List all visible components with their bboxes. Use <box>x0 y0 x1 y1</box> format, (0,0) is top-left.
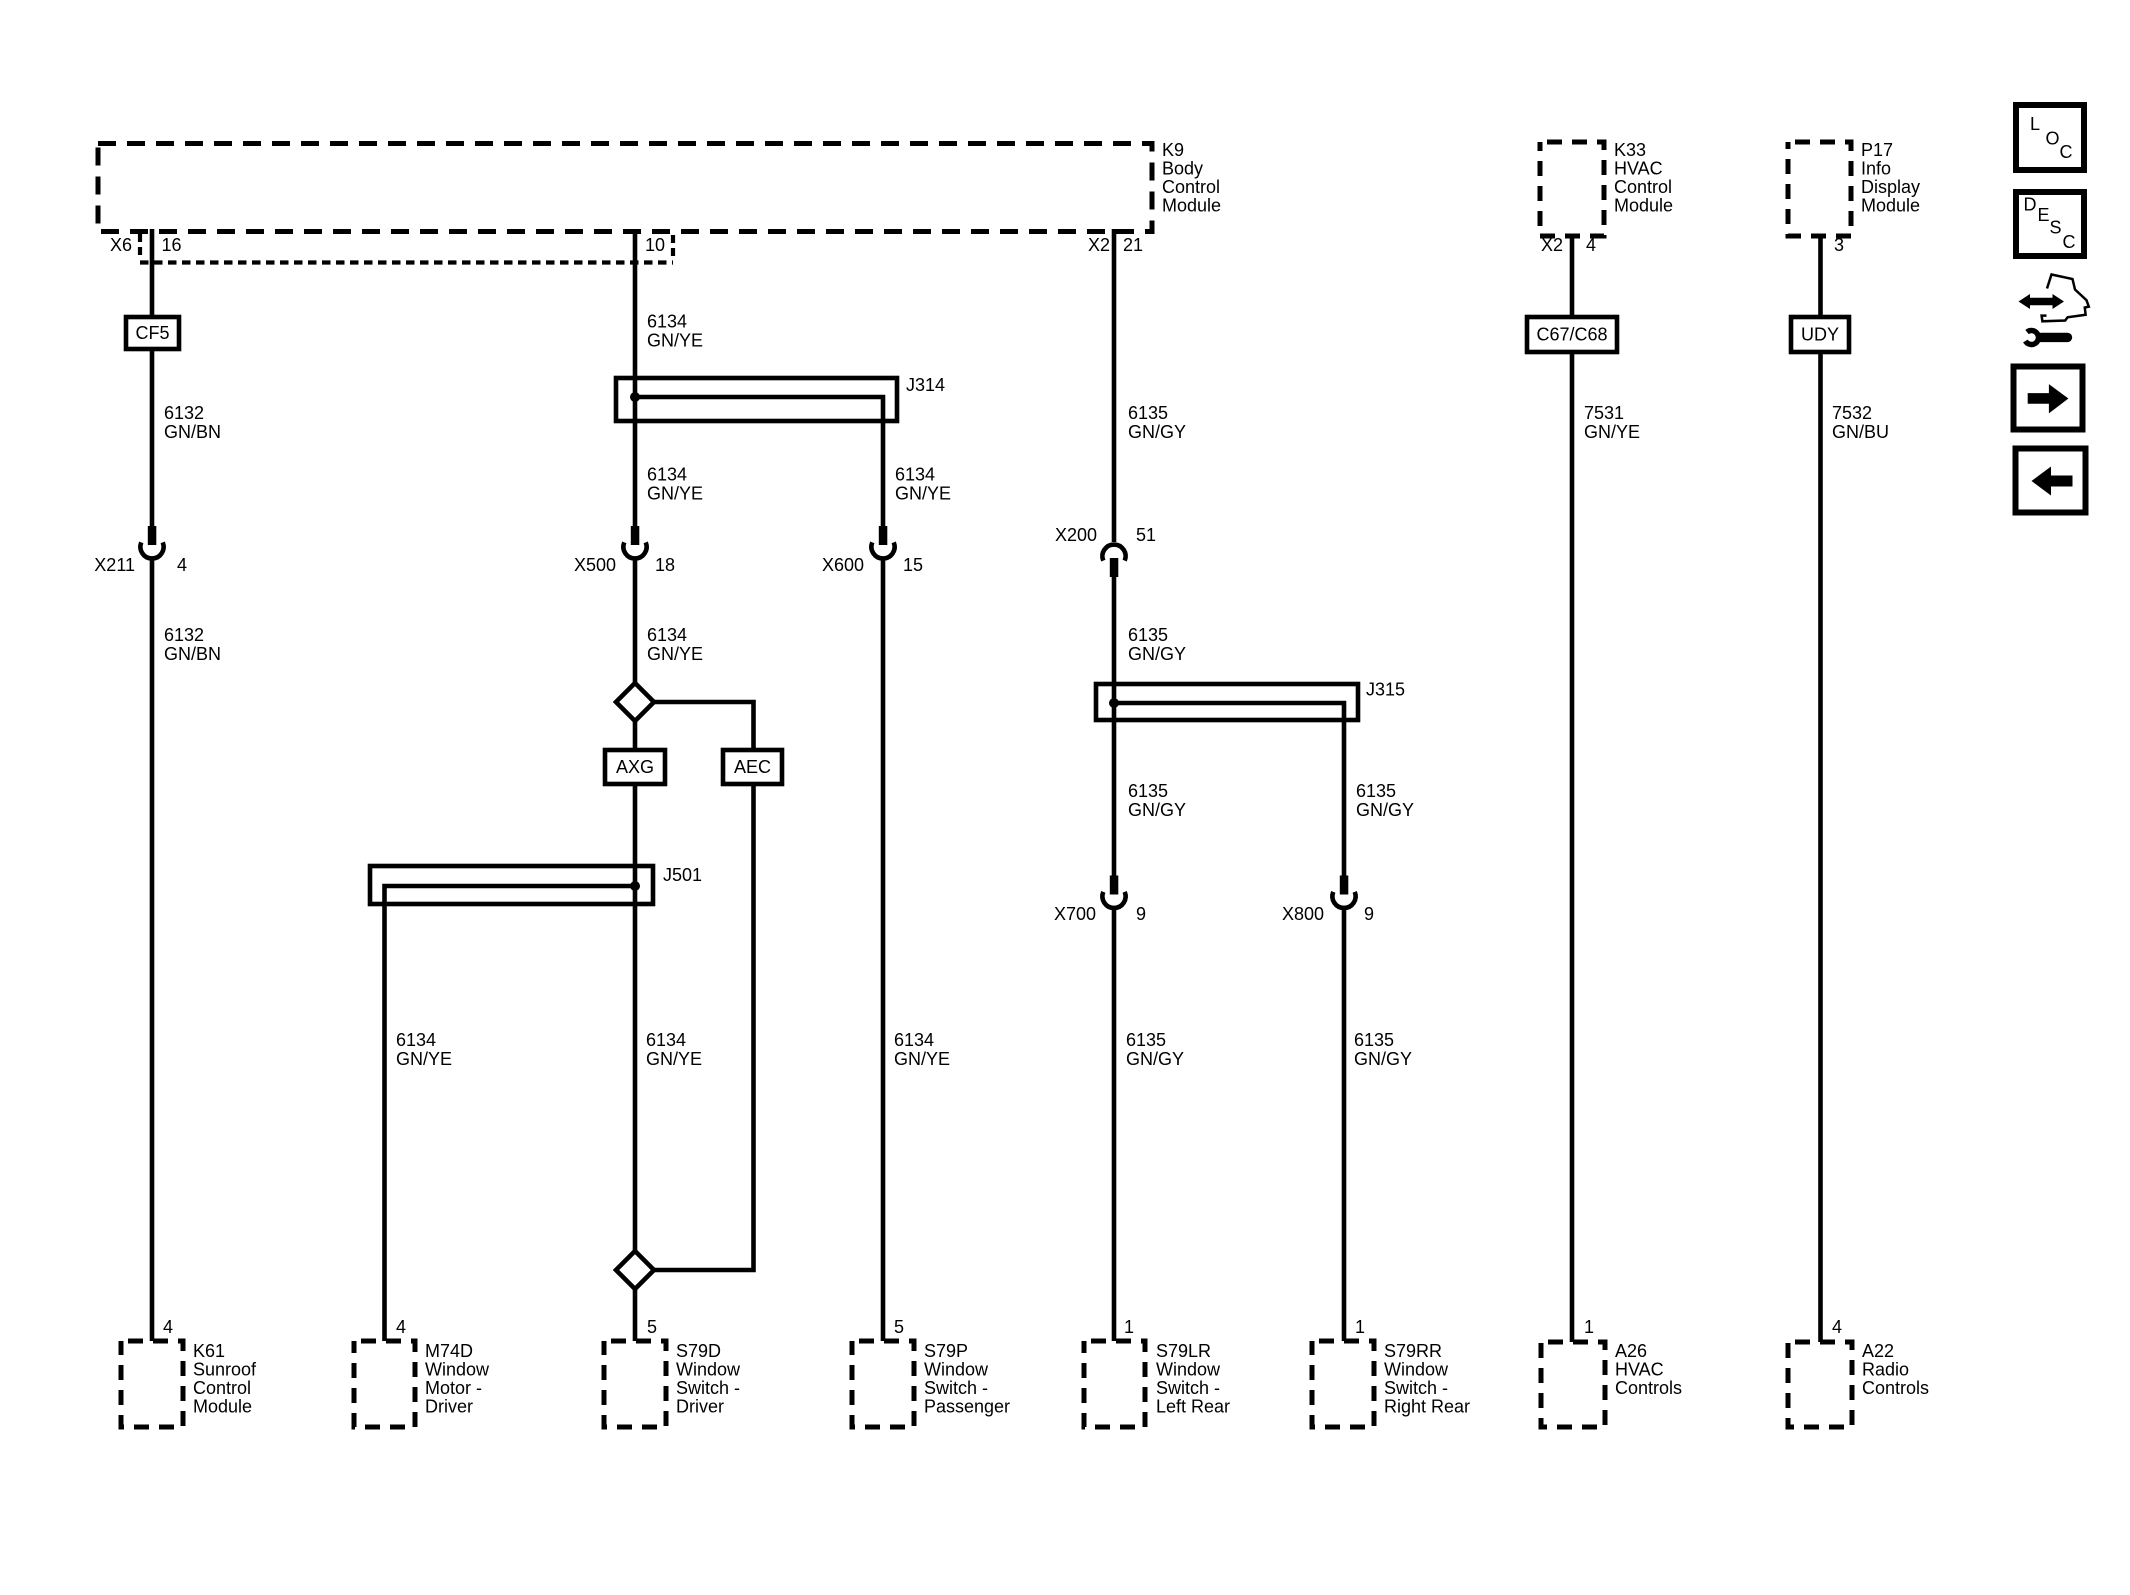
inline connector X211 pin 4 <box>140 526 163 558</box>
module K9 Body Control Module dashed box <box>98 144 1152 232</box>
wire 6132 GN/BN from X211 to K61 <box>150 558 155 1341</box>
circuit tag UDY box <box>1791 317 1849 352</box>
label S79P Window Switch Passenger <box>924 1341 1010 1417</box>
svg-text:6134: 6134 <box>647 625 687 645</box>
svg-text:CF5: CF5 <box>135 323 169 343</box>
wire 6134 GN/YE from AXG through J501 to lower splice diamond <box>633 784 638 1252</box>
svg-text:Switch -: Switch - <box>1156 1378 1220 1398</box>
wire label 6135 GN/GY below K9 <box>1128 403 1186 442</box>
wire 6132 GN/BN from K9 X6:16 to CF5 <box>150 229 155 317</box>
svg-text:51: 51 <box>1136 525 1156 545</box>
svg-text:A26: A26 <box>1615 1341 1647 1361</box>
svg-text:GN/GY: GN/GY <box>1356 800 1414 820</box>
wire 6135 GN/GY from K9 X2:21 to X200 <box>1112 229 1117 542</box>
svg-text:X6: X6 <box>110 235 132 255</box>
svg-text:6132: 6132 <box>164 403 204 423</box>
wire 6134 GN/YE from X500 to splice diamond <box>633 558 638 684</box>
svg-text:6135: 6135 <box>1128 403 1168 423</box>
svg-text:C67/C68: C67/C68 <box>1536 325 1607 345</box>
svg-text:Window: Window <box>1384 1360 1449 1380</box>
wire 6134 GN/YE from K9 X6:10 through J314 to X500 <box>633 229 638 526</box>
svg-text:S: S <box>2050 218 2062 238</box>
svg-text:Control: Control <box>1614 177 1672 197</box>
svg-text:K33: K33 <box>1614 140 1646 160</box>
wire label 6134 GN/YE below X500 <box>647 625 703 664</box>
svg-text:18: 18 <box>655 555 675 575</box>
component K61 Sunroof Control Module dashed box <box>121 1341 183 1427</box>
svg-text:4: 4 <box>396 1317 406 1337</box>
svg-text:X200: X200 <box>1055 525 1097 545</box>
svg-text:1: 1 <box>1355 1317 1365 1337</box>
svg-text:16: 16 <box>162 235 182 255</box>
svg-text:7531: 7531 <box>1584 403 1624 423</box>
inline connector X700 pin 9 <box>1102 876 1125 908</box>
junction dot in J315 <box>1109 698 1119 708</box>
svg-text:X211: X211 <box>94 555 135 575</box>
svg-text:Window: Window <box>676 1360 741 1380</box>
wire 6135 GN/GY from X800 to S79RR <box>1342 908 1347 1341</box>
svg-text:21: 21 <box>1123 235 1143 255</box>
svg-text:6134: 6134 <box>894 1030 934 1050</box>
inline connector X200 pin 51 flipped <box>1102 545 1125 577</box>
svg-text:6134: 6134 <box>396 1030 436 1050</box>
wire 6135 GN/GY from X700 to S79LR <box>1112 908 1117 1341</box>
label P17 Info Display Module <box>1861 140 1920 216</box>
module K33 HVAC Control Module dashed box <box>1540 142 1604 236</box>
svg-text:Right Rear: Right Rear <box>1384 1397 1470 1417</box>
splice pack J501 <box>370 866 653 904</box>
svg-text:S79P: S79P <box>924 1341 968 1361</box>
label K33 HVAC Control Module <box>1614 140 1673 216</box>
svg-text:1: 1 <box>1584 1317 1594 1337</box>
wire label 6135 GN/GY below X200 <box>1128 625 1186 664</box>
svg-text:9: 9 <box>1136 904 1146 924</box>
wire 6134 GN/YE J314 bus to X600 <box>635 397 883 526</box>
splice pack J314 <box>616 378 897 421</box>
svg-text:GN/YE: GN/YE <box>647 331 703 351</box>
icon repair wrench <box>2025 330 2067 344</box>
svg-text:Display: Display <box>1861 177 1920 197</box>
label S79D Window Switch Driver <box>676 1341 741 1417</box>
label S79LR Window Switch Left Rear <box>1156 1341 1230 1417</box>
icon LOC box <box>2016 105 2084 170</box>
module P17 Info Display Module dashed box <box>1788 142 1851 236</box>
junction dot in J314 <box>630 392 640 402</box>
svg-text:6135: 6135 <box>1128 625 1168 645</box>
inline connector X600 pin 15 <box>871 526 894 558</box>
svg-text:Info: Info <box>1861 159 1891 179</box>
wire label 6135 GN/GY below J315 right <box>1356 781 1414 820</box>
label A26 HVAC Controls <box>1615 1341 1682 1398</box>
wire label 6134 GN/YE S79P branch <box>894 1030 950 1069</box>
svg-text:K61: K61 <box>193 1341 225 1361</box>
icon DESC box <box>2016 192 2084 256</box>
svg-text:Passenger: Passenger <box>924 1397 1010 1417</box>
svg-text:O: O <box>2046 129 2060 149</box>
svg-text:GN/GY: GN/GY <box>1128 422 1186 442</box>
svg-text:GN/YE: GN/YE <box>396 1049 452 1069</box>
svg-text:6135: 6135 <box>1356 781 1396 801</box>
splice diamond lower <box>616 1251 654 1289</box>
wire 6135 GN/GY J315 bus to X800 <box>1114 703 1344 877</box>
wire 7532 GN/BU from P17 pin3 to A22 <box>1818 234 1823 317</box>
wire 6134 GN/YE J501 bus to M74D <box>385 886 636 1341</box>
svg-text:6135: 6135 <box>1128 781 1168 801</box>
svg-text:6134: 6134 <box>647 312 687 332</box>
wire label 6135 GN/GY S79LR branch <box>1126 1030 1184 1069</box>
icon repair double arrow <box>2019 294 2065 309</box>
svg-text:S79LR: S79LR <box>1156 1341 1211 1361</box>
wire from splice diamond to AXG <box>633 721 638 751</box>
circuit tag AEC box <box>723 750 782 784</box>
wire 6134 GN/YE from X600 to S79P <box>881 558 886 1341</box>
svg-text:GN/YE: GN/YE <box>646 1049 702 1069</box>
svg-text:10: 10 <box>645 235 665 255</box>
wire label 6134 GN/YE M74D branch <box>396 1030 452 1069</box>
label M74D Window Motor Driver <box>425 1341 490 1417</box>
wire from AEC to lower splice diamond <box>654 784 754 1270</box>
svg-text:Switch -: Switch - <box>1384 1378 1448 1398</box>
wire label 7532 GN/BU <box>1832 403 1889 442</box>
svg-text:GN/BU: GN/BU <box>1832 422 1889 442</box>
label K61 Sunroof Control Module <box>193 1341 257 1417</box>
svg-text:Driver: Driver <box>425 1397 473 1417</box>
svg-text:Controls: Controls <box>1862 1378 1929 1398</box>
svg-text:3: 3 <box>1834 235 1844 255</box>
svg-text:Control: Control <box>193 1378 251 1398</box>
svg-text:GN/YE: GN/YE <box>647 644 703 664</box>
svg-text:GN/GY: GN/GY <box>1128 644 1186 664</box>
svg-text:J314: J314 <box>906 375 945 395</box>
splice diamond upper <box>616 683 654 721</box>
svg-text:P17: P17 <box>1861 140 1893 160</box>
svg-text:4: 4 <box>1832 1317 1842 1337</box>
svg-text:X600: X600 <box>822 555 864 575</box>
svg-text:15: 15 <box>903 555 923 575</box>
connector band X6 dotted outline <box>140 234 673 263</box>
svg-text:9: 9 <box>1364 904 1374 924</box>
svg-text:Controls: Controls <box>1615 1378 1682 1398</box>
fuse CF5 box <box>126 317 179 349</box>
svg-text:5: 5 <box>894 1317 904 1337</box>
svg-text:Left Rear: Left Rear <box>1156 1397 1230 1417</box>
wire label 6132 GN/BN <box>164 403 221 442</box>
svg-text:GN/YE: GN/YE <box>647 484 703 504</box>
svg-text:GN/GY: GN/GY <box>1354 1049 1412 1069</box>
inline connector X500 pin 18 <box>623 526 646 558</box>
svg-text:AEC: AEC <box>734 757 771 777</box>
svg-text:GN/YE: GN/YE <box>895 484 951 504</box>
wire label 6132 GN/BN below X211 <box>164 625 221 664</box>
svg-text:6134: 6134 <box>895 465 935 485</box>
svg-text:X800: X800 <box>1282 904 1324 924</box>
component M74D Window Motor Driver dashed box <box>354 1341 415 1427</box>
svg-text:1: 1 <box>1124 1317 1134 1337</box>
label S79RR Window Switch Right Rear <box>1384 1341 1470 1417</box>
wire label 6134 GN/YE S79D branch <box>646 1030 702 1069</box>
svg-text:S79D: S79D <box>676 1341 721 1361</box>
icon next page arrow box <box>2014 367 2083 430</box>
splice pack J315 <box>1096 684 1358 720</box>
component S79P Window Switch Passenger dashed box <box>852 1341 914 1427</box>
circuit tag AXG box <box>605 750 665 784</box>
svg-text:K9: K9 <box>1162 140 1184 160</box>
svg-text:6134: 6134 <box>647 465 687 485</box>
wire label 6134 GN/YE below J314 left <box>647 465 703 504</box>
svg-text:6134: 6134 <box>646 1030 686 1050</box>
svg-text:GN/BN: GN/BN <box>164 422 221 442</box>
svg-text:M74D: M74D <box>425 1341 473 1361</box>
svg-text:E: E <box>2038 205 2050 225</box>
svg-text:Sunroof: Sunroof <box>193 1360 257 1380</box>
label K9 Body Control Module <box>1162 140 1221 216</box>
svg-text:7532: 7532 <box>1832 403 1872 423</box>
svg-text:4: 4 <box>163 1317 173 1337</box>
svg-text:4: 4 <box>1586 235 1596 255</box>
svg-text:Window: Window <box>924 1360 989 1380</box>
svg-text:GN/GY: GN/GY <box>1128 800 1186 820</box>
svg-text:AXG: AXG <box>616 757 654 777</box>
svg-text:5: 5 <box>647 1317 657 1337</box>
svg-text:Module: Module <box>1861 196 1920 216</box>
svg-text:6135: 6135 <box>1354 1030 1394 1050</box>
svg-text:Control: Control <box>1162 177 1220 197</box>
wire label 7531 GN/YE <box>1584 403 1640 442</box>
svg-text:D: D <box>2024 195 2037 215</box>
icon repair outline <box>2042 275 2089 322</box>
svg-text:J501: J501 <box>663 865 702 885</box>
svg-text:Body: Body <box>1162 159 1203 179</box>
inline connector X800 pin 9 <box>1332 876 1355 908</box>
wire from splice diamond to AEC <box>654 702 754 750</box>
svg-text:4: 4 <box>177 555 187 575</box>
wire 6132 GN/BN from CF5 to X211 <box>150 349 155 526</box>
component S79D Window Switch Driver dashed box <box>604 1341 666 1427</box>
svg-text:L: L <box>2030 114 2040 134</box>
wire from lower splice diamond to S79D <box>633 1289 638 1342</box>
svg-text:Module: Module <box>193 1397 252 1417</box>
svg-text:GN/YE: GN/YE <box>1584 422 1640 442</box>
svg-text:X2: X2 <box>1541 235 1563 255</box>
wire label 6135 GN/GY below J315 left <box>1128 781 1186 820</box>
svg-text:Window: Window <box>425 1360 490 1380</box>
wire label 6134 GN/YE below J314 right <box>895 465 951 504</box>
fuse C67/C68 box <box>1527 317 1617 352</box>
svg-text:Radio: Radio <box>1862 1360 1909 1380</box>
svg-text:X2: X2 <box>1088 235 1110 255</box>
svg-text:GN/GY: GN/GY <box>1126 1049 1184 1069</box>
svg-text:A22: A22 <box>1862 1341 1894 1361</box>
component S79LR Window Switch Left Rear dashed box <box>1084 1341 1145 1427</box>
junction dot in J501 <box>630 881 640 891</box>
icon previous page arrow box <box>2016 449 2086 513</box>
svg-text:Module: Module <box>1162 196 1221 216</box>
svg-text:GN/YE: GN/YE <box>894 1049 950 1069</box>
svg-text:6135: 6135 <box>1126 1030 1166 1050</box>
svg-text:UDY: UDY <box>1801 325 1839 345</box>
svg-text:Driver: Driver <box>676 1397 724 1417</box>
wire 7531 GN/YE from K33 X2:4 to A26 <box>1570 234 1575 317</box>
svg-text:Switch -: Switch - <box>924 1378 988 1398</box>
component S79RR Window Switch Right Rear dashed box <box>1312 1341 1374 1427</box>
svg-text:HVAC: HVAC <box>1615 1360 1664 1380</box>
svg-text:C: C <box>2063 232 2076 252</box>
svg-text:Window: Window <box>1156 1360 1221 1380</box>
wire label 6135 GN/GY S79RR branch <box>1354 1030 1412 1069</box>
label A22 Radio Controls <box>1862 1341 1929 1398</box>
svg-text:6132: 6132 <box>164 625 204 645</box>
svg-text:X500: X500 <box>574 555 616 575</box>
svg-text:Motor -: Motor - <box>425 1378 482 1398</box>
wire label 6134 GN/YE above J314 <box>647 312 703 351</box>
svg-text:HVAC: HVAC <box>1614 159 1663 179</box>
svg-text:S79RR: S79RR <box>1384 1341 1442 1361</box>
wire 6135 GN/GY from X200 through J315 to X700 <box>1112 577 1117 877</box>
svg-text:Switch -: Switch - <box>676 1378 740 1398</box>
svg-text:X700: X700 <box>1054 904 1096 924</box>
svg-text:C: C <box>2060 142 2073 162</box>
svg-text:Module: Module <box>1614 196 1673 216</box>
component A22 Radio Controls dashed box <box>1788 1342 1852 1427</box>
component A26 HVAC Controls dashed box <box>1541 1342 1605 1427</box>
svg-text:GN/BN: GN/BN <box>164 644 221 664</box>
svg-text:J315: J315 <box>1366 680 1405 700</box>
